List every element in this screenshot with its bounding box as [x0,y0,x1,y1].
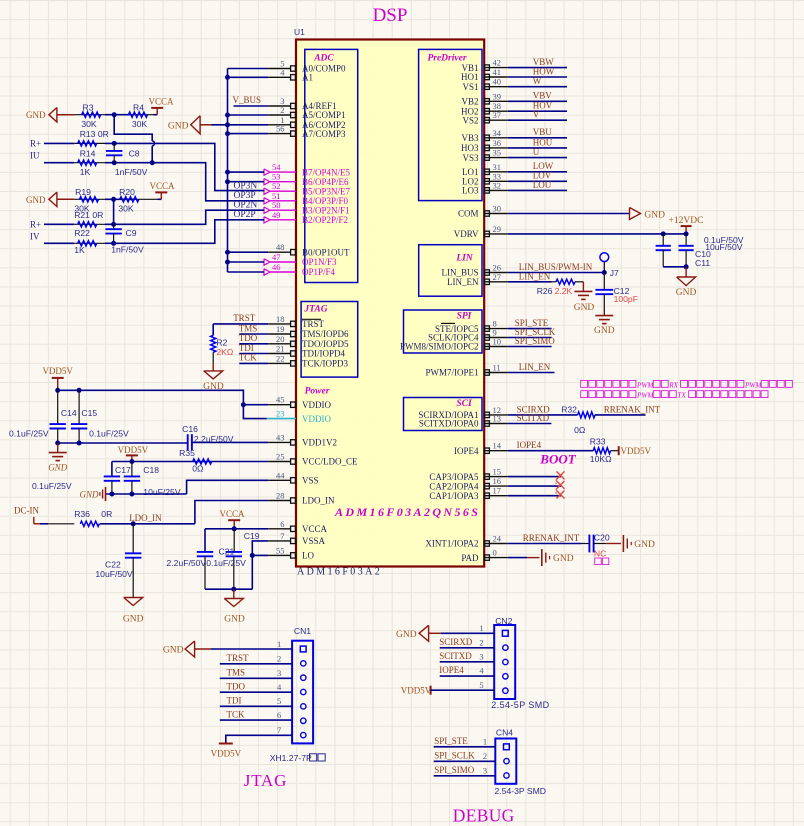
net label TDI at CN1 [227,696,242,706]
wire VCC/LDO_CE row [112,461,268,463]
U1 pin 10 PWM8/SIMO/IOPC2 [400,337,508,352]
svg-text:R19: R19 [75,187,91,197]
svg-text:ADC: ADC [313,54,334,64]
svg-text:46: 46 [272,262,281,272]
CN2 pin number 3 [479,651,483,661]
wire to VDDIO pin23 [243,405,266,419]
wire CN1 TCK [220,719,292,721]
U1 pin 31 LO1 [462,162,508,177]
U1 pin 46 OP1P/F4 [264,262,336,277]
ground GND sideways at PAD [542,549,574,566]
svg-text:HOU: HOU [533,137,553,147]
ground GND under R2 [203,364,224,393]
svg-text:LOU: LOU [533,180,552,190]
wire net LOW [508,171,567,173]
svg-text:48: 48 [276,242,285,252]
svg-text:IV: IV [30,231,40,241]
svg-text:C22: C22 [105,560,121,570]
svg-text:V_BUS: V_BUS [233,95,262,105]
svg-text:39: 39 [493,91,502,101]
resistor R13 [74,129,109,146]
U1 pin 14 IOPE4 [454,441,508,456]
svg-text:OP3N: OP3N [234,181,258,191]
wire TMS [239,333,268,335]
wire CN1 TRST [220,663,292,665]
svg-text:SCITXD: SCITXD [517,413,550,423]
capacitor C21 [206,529,246,589]
wire net HOV [508,110,567,112]
net label HOW [533,66,555,76]
svg-text:SPI_SCLK: SPI_SCLK [434,750,475,760]
U1 pin 24 XINT1/IOPA2 [425,534,507,549]
net label IOPE4 at CN2 [439,665,464,675]
wire RRENAK_INT at R32 [595,414,646,416]
svg-text:2: 2 [280,105,284,115]
svg-text:R35: R35 [179,448,195,458]
U1 pin 32 LO3 [462,180,508,195]
U1 pin 4 A1 [268,67,313,82]
svg-text:IU: IU [30,151,40,161]
svg-text:PWM: PWM [744,381,762,389]
capacitor C20 [581,532,609,552]
svg-text:LIN_EN: LIN_EN [519,271,551,281]
capacitor C8 [106,143,148,176]
svg-text:C18: C18 [143,465,159,475]
svg-text:C17: C17 [115,465,131,475]
svg-text:C14: C14 [61,408,77,418]
svg-text:36: 36 [493,138,502,148]
svg-text:11: 11 [493,363,501,373]
wire IOPE4 [508,450,594,452]
net label SCITXD at CN2 [439,651,472,661]
U1 LIN section box [419,245,482,297]
svg-text:35: 35 [493,148,502,158]
CN1 pin number 6 [277,710,281,720]
svg-text:+12VDC: +12VDC [669,216,704,226]
svg-text:2KΩ: 2KΩ [216,347,234,357]
svg-text:30K: 30K [118,203,134,213]
resistor R32 [561,404,595,435]
svg-text:NC: NC [594,549,606,559]
svg-text:R26: R26 [537,286,553,296]
power port GND at R19 [26,192,74,207]
svg-text:RRENAK_INT: RRENAK_INT [604,404,661,414]
svg-text:OP2P: OP2P [234,210,256,220]
ground GND at COM [630,208,666,221]
svg-text:2: 2 [479,637,483,647]
svg-text:C20: C20 [594,532,610,542]
wire VSSA ground rail [205,588,252,590]
port IU [30,151,74,163]
svg-text:1K: 1K [80,167,91,177]
wire LIN_BUS [508,272,605,274]
svg-text:LO3: LO3 [462,186,479,196]
junction VDDIO pin45 branch [241,402,246,407]
net label SPI_STE at CN4 [434,736,468,746]
net label TDO [239,333,258,343]
svg-text:R+: R+ [30,139,41,149]
junction bus pin4 [225,75,230,80]
wire LDO_IN row [133,523,195,525]
wire V_BUS [234,105,269,107]
svg-text:CAP2/IOPA4: CAP2/IOPA4 [429,481,479,491]
svg-text:34: 34 [493,128,502,138]
power port VDD5V at R33 [619,446,652,456]
ground GND sideways at C20 [623,535,655,552]
svg-text:OP2N: OP2N [234,200,258,210]
net label V [533,110,540,120]
U1 pin 12 SCIRXD/IOPA1 [418,405,507,420]
resistor R4 [129,103,154,129]
svg-text:VSSA: VSSA [302,536,326,546]
svg-text:3: 3 [483,765,487,775]
svg-text:30: 30 [493,204,502,214]
svg-text:GND: GND [396,630,417,640]
svg-text:1nF/50V: 1nF/50V [111,244,144,254]
wire CN1 pin7 [226,735,292,742]
net label V_BUS [233,95,262,105]
net label LIN_EN [519,271,551,281]
junction R14 C8 [112,160,117,165]
CN2 pin number 4 [479,666,484,676]
wire SPI_SIMO [508,346,552,348]
wire divider to R14 row [114,115,154,163]
U1 ADC section box [305,49,358,282]
svg-text:49: 49 [272,210,281,220]
svg-text:VB3: VB3 [461,133,479,143]
wire XINT1 RRENAK_INT [508,543,582,545]
svg-text:RRENAK_INT: RRENAK_INT [523,533,580,543]
svg-text:14: 14 [493,441,502,451]
svg-text:LO: LO [302,551,314,561]
resistor R3 [74,103,105,129]
CN1 pin number 2 [277,654,281,664]
U1 pin 25 VCC/LDO_CE [268,452,358,467]
CN4 pin number 2 [483,751,487,761]
svg-text:LOW: LOW [533,161,554,171]
junction C15 node [77,441,82,446]
wire TRST [213,323,268,325]
svg-text:HOW: HOW [533,66,555,76]
U1 pin 27 LIN_EN [447,272,508,287]
net label U [533,147,540,157]
wire net VBW [508,67,567,69]
net label RRENAK_INT at R32 [604,404,661,414]
svg-text:VDD5V: VDD5V [42,366,73,376]
U1 pin 38 HO2 [461,101,508,116]
svg-text:CN4: CN4 [496,728,513,738]
svg-text:TRST: TRST [227,653,250,663]
wire VSSA to pin7 [252,541,268,589]
resistor R21 [74,210,105,227]
svg-text:CN2: CN2 [495,616,512,626]
svg-text:VS2: VS2 [462,115,478,125]
net label SPI_SIMO [515,336,556,346]
net label TRST at CN1 [227,653,250,663]
junction LO rail [250,553,255,558]
CN1 pin number 7 [277,725,281,735]
power port VCCA at C19 [219,509,245,532]
svg-text:2.54-3P SMD: 2.54-3P SMD [495,786,546,796]
svg-text:R+: R+ [30,220,41,230]
U1 pin 23 VDDIO [267,409,332,424]
svg-text:4: 4 [479,666,484,676]
svg-text:22: 22 [276,353,285,363]
wire CN2 IOPE4 [440,675,495,677]
svg-text:SCIRXD: SCIRXD [439,637,473,647]
svg-text:GND: GND [224,615,245,625]
svg-text:31: 31 [493,162,502,172]
U1 pin 26 LIN_BUS [441,263,507,278]
wire PAD [508,557,540,559]
net label SPI_SCLK at CN4 [434,750,475,760]
U1 pin 45 VDDIO [268,395,331,410]
svg-text:ADM16F03A2: ADM16F03A2 [297,567,382,578]
U1 pin 0 PAD [461,548,507,563]
no-connect X pin 16 [557,481,565,489]
svg-text:4: 4 [277,682,282,692]
svg-text:R32: R32 [561,404,577,414]
net label HOU [533,137,553,147]
svg-text:JTAG: JTAG [303,305,327,315]
svg-text:TDI: TDI [239,343,254,353]
net label LDO_IN [129,513,162,523]
svg-text:55: 55 [276,545,285,555]
svg-text:DEBUG: DEBUG [453,806,515,826]
wire net LOU [508,189,567,191]
capacitor C22 [95,524,141,598]
wire net VBU [508,137,567,139]
junction R13 C8 [112,141,117,146]
IC U1 ADM16F03A2QN56S body [296,40,484,567]
U1 pin 3 A4/REF1 [268,96,336,111]
svg-text:6: 6 [280,519,284,529]
capacitor C18 [124,462,181,497]
svg-text:100pF: 100pF [614,294,638,304]
svg-text:PWM: PWM [636,381,654,389]
svg-text:VDDIO: VDDIO [302,400,331,410]
wire pin2 row [228,114,269,116]
svg-text:0.1uF/25V: 0.1uF/25V [206,558,246,568]
svg-text:1K: 1K [74,245,85,255]
net label LOV [533,171,552,181]
U1 LIN section title [455,254,474,264]
junction bus pin48 [225,250,230,255]
U1 pin 6 VCCA [268,519,327,534]
wire CN4 SPI_STE [434,746,496,748]
svg-text:18: 18 [276,314,285,324]
svg-text:2: 2 [277,654,281,664]
resistor R33 [590,437,619,464]
svg-text:C19: C19 [244,531,260,541]
U1 pin 51 B4/OP3P/F0 [264,191,349,206]
svg-text:B7/OP4N/E5: B7/OP4N/E5 [302,167,351,177]
svg-text:LIN_EN: LIN_EN [519,362,551,372]
svg-text:TCK: TCK [227,709,246,719]
svg-text:COM: COM [458,209,479,219]
comment chinese line1 [581,380,793,389]
svg-text:24: 24 [493,534,502,544]
net label OP3P [234,191,256,201]
label BOOT [539,452,576,467]
net label HOV [533,101,553,111]
wire CN1 TDI [220,705,292,707]
svg-text:GND: GND [634,540,655,550]
svg-text:16: 16 [493,476,502,486]
svg-text:32: 32 [493,180,502,190]
ground GND sideways at C17 [79,487,105,501]
capacitor C19/C21 left [167,529,214,589]
resistor R20 [118,187,157,213]
U1 SCI section title [456,399,472,409]
power port GND at A6/COMP2 [168,116,212,134]
wire R3-R4 [105,114,131,116]
svg-text:40: 40 [493,77,502,87]
svg-text:GND: GND [26,110,46,120]
svg-text:R36: R36 [74,509,90,519]
CN4 pin number 3 [483,765,487,775]
svg-text:C21: C21 [219,546,235,556]
capacitor C11 [679,234,743,268]
svg-text:DSP: DSP [373,5,408,26]
wire VDD5V rail [58,390,269,404]
svg-text:10: 10 [493,337,502,347]
wire LO to pin55 [252,554,268,556]
no-connect X pin 17 [557,491,565,499]
svg-text:U1: U1 [294,27,305,37]
U1 pin 28 LDO_IN [268,491,335,506]
svg-text:TDO: TDO [239,333,258,343]
power port +12VDC [669,216,704,236]
comment chinese line2 [581,391,768,400]
svg-text:23: 23 [276,409,285,419]
svg-text:SCI: SCI [456,399,472,409]
power port GND at CN2 [396,625,441,641]
U1 pin 50 B3/OP2N/F1 [264,200,350,215]
CN1 pin number 5 [277,696,281,706]
wire CN2 SCIRXD [440,647,495,649]
U1 pin 5 A0/COMP0 [268,59,346,74]
svg-text:RX: RX [668,381,678,389]
resistor R22 [74,228,105,255]
svg-text:2: 2 [483,751,487,761]
svg-text:XINT1/IOPA2: XINT1/IOPA2 [425,539,478,549]
junction bus pin54 [225,170,230,175]
wire net HOW [508,76,567,78]
wire VCCA pin6 row [205,528,268,530]
svg-text:VCCA: VCCA [302,524,328,534]
U1 SPI section box [404,310,483,353]
wire CN1 pin1 [211,648,292,650]
wire R21 out (OP2N) [105,210,264,224]
svg-text:BOOT: BOOT [539,452,576,467]
svg-text:2.2uF/50V: 2.2uF/50V [194,434,234,444]
svg-text:R22: R22 [74,228,90,238]
svg-text:37: 37 [493,110,502,120]
svg-text:A1: A1 [302,73,313,83]
wire CN2 pin5 [431,680,495,690]
net label VBW [533,57,555,67]
net label OP2P [234,210,256,220]
svg-text:2.2K: 2.2K [555,286,573,296]
wire pin46 row [228,271,265,273]
net label OP3N [234,181,258,191]
U1 pin 36 HO3 [461,138,508,153]
junction bus pin56 [225,131,230,136]
net label SCIRXD [517,404,551,414]
U1 pin 53 B6/OP4P/E6 [264,172,349,187]
svg-text:LIN: LIN [455,254,474,264]
resistor R19 [74,187,105,213]
svg-text:30K: 30K [81,119,97,129]
junction C17 bus [109,492,114,497]
svg-text:TDO: TDO [227,681,246,691]
power port VCCA at R20 [149,181,175,199]
svg-text:GND: GND [123,615,144,625]
ground GND under R26 [574,282,595,313]
svg-text:C15: C15 [81,408,97,418]
junction C21 rail [231,587,236,592]
svg-text:C8: C8 [129,149,140,159]
svg-text:R3: R3 [83,103,94,113]
label 2.54-5P SMD [491,700,549,710]
svg-text:GND: GND [676,288,697,298]
svg-text:TCK/IOPD3: TCK/IOPD3 [302,359,349,369]
wire CN1 TMS [220,677,292,679]
wire LIN_EN at PWM7 [508,372,555,374]
wire pin48 row [228,251,269,253]
port DC-IN [14,506,48,524]
wire net U [508,157,567,159]
svg-text:41: 41 [493,67,502,77]
svg-text:B0/OP1OUT: B0/OP1OUT [302,247,350,257]
svg-text:19: 19 [276,324,285,334]
wire SCITXD [508,423,552,425]
svg-text:13: 13 [493,414,502,424]
svg-text:HO1: HO1 [461,72,479,82]
svg-text:56: 56 [276,124,285,134]
connector CN4 body [495,728,516,784]
U1 pin 54 B7/OP4N/E5 [264,162,351,177]
net label SCITXD [517,413,550,423]
svg-text:W: W [533,76,542,86]
power port VDD5V at CN1 [211,744,242,759]
U1 pin 52 B5/OP3N/E7 [264,181,351,196]
svg-text:1: 1 [483,736,487,746]
svg-text:7: 7 [277,725,281,735]
CN2 pin number 2 [479,637,483,647]
junction R21 C9 [113,223,115,225]
resistor R35 [179,448,212,473]
net label LOW [533,161,554,171]
U1 PreDriver section box [419,49,482,200]
svg-text:R21 0R: R21 0R [74,210,103,220]
capacitor C9 [105,224,144,254]
svg-text:6: 6 [277,710,281,720]
U1 pin 55 LO [268,545,314,560]
junction C22 tap [131,521,136,526]
wire SPI_STE [508,328,552,330]
net label LIN_BUS/PWM-IN [519,262,593,272]
wire R19-R20 [105,198,135,200]
svg-text:29: 29 [493,224,502,234]
U1 pin 17 CAP1/IOPA3 [429,486,507,501]
net label TCK [239,353,258,363]
svg-text:CAP3/IOPA5: CAP3/IOPA5 [429,472,479,482]
svg-text:B6/OP4P/E6: B6/OP4P/E6 [302,177,349,187]
wire ground bus C17 C18 [106,493,187,495]
svg-text:GND: GND [48,462,68,472]
